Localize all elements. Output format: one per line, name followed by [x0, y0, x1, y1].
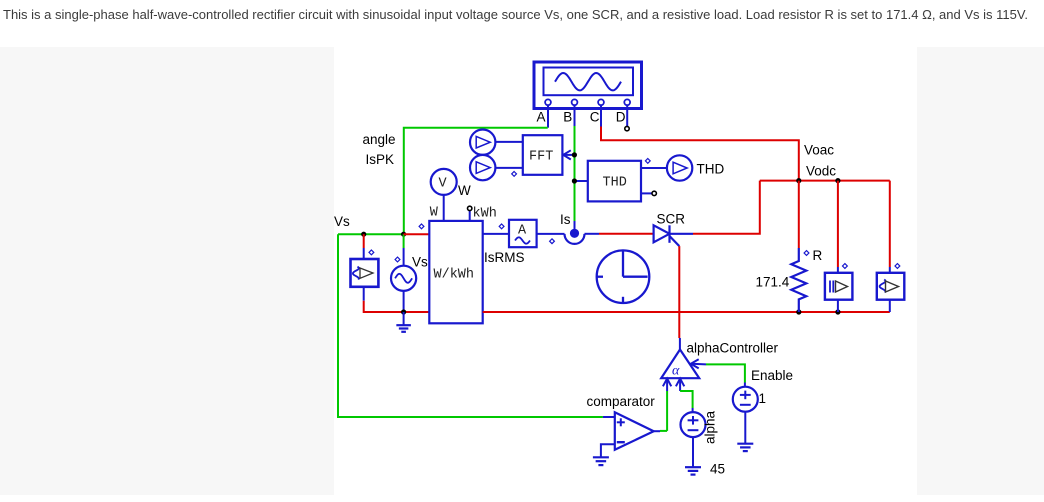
- wire alpha stub (blue): [692, 408, 694, 412]
- svg-text:W: W: [430, 206, 439, 221]
- junction R bottom: [796, 309, 801, 314]
- probe2 polarity mark: [895, 264, 900, 269]
- wire Is to SCR (blue): [585, 233, 600, 235]
- wire enable stub (blue): [744, 383, 746, 387]
- svg-text:THD: THD: [603, 176, 627, 191]
- wire probe2 (blue): [889, 267, 891, 273]
- scope pin B terminal: [572, 99, 578, 105]
- svg-text:Enable: Enable: [751, 368, 793, 383]
- voltage probe angle (circle): [470, 130, 495, 155]
- arrow into FFT input: [563, 150, 574, 159]
- wire scope C stub: [600, 105, 602, 126]
- svg-text:IsRMS: IsRMS: [484, 250, 525, 265]
- wire bottom bus left (red): [428, 311, 430, 313]
- wire scope D stub: [626, 105, 628, 126]
- oscilloscope scope body: [534, 62, 642, 109]
- svg-text:alpha: alpha: [703, 410, 718, 444]
- wire to Vs probe (red): [363, 234, 365, 248]
- thyristor SCR: [654, 225, 693, 246]
- voltage probe V (W): [431, 169, 457, 221]
- wire SCR gate (red): [678, 246, 680, 338]
- junction probe1 top: [835, 178, 840, 183]
- wire alpha to ground: [692, 437, 694, 467]
- wire Vs node to W/kWh (red): [404, 233, 430, 235]
- wire Is stub (blue): [574, 221, 576, 230]
- wire gate stub (blue): [679, 338, 681, 350]
- voltage source Vs: [391, 266, 416, 291]
- wire Vs probe to ground bus (red): [364, 301, 430, 312]
- Vs probe polarity mark: [369, 250, 374, 255]
- wire comparator plus input (blue): [603, 416, 615, 418]
- junction Vs source: [401, 232, 406, 237]
- wire to Vs source (green): [403, 234, 405, 248]
- svg-text:B: B: [563, 110, 572, 125]
- svg-text:C: C: [590, 110, 600, 125]
- voltmeter Vs probe block: [351, 259, 379, 287]
- wire probe1 to FFT: [495, 141, 522, 143]
- resistor R: [791, 248, 806, 312]
- svg-text:angle: angle: [363, 132, 396, 147]
- svg-text:Vs: Vs: [334, 214, 350, 229]
- junction Vs probe: [361, 232, 366, 237]
- svg-text:SCR: SCR: [657, 212, 686, 227]
- wire A to Vs node (green): [404, 128, 548, 235]
- scope pin C terminal: [598, 99, 604, 105]
- voltmeter Vodc probe block: [825, 273, 853, 300]
- wire comparator minus to ground (blue): [601, 444, 615, 457]
- wire probe2 to FFT: [495, 167, 522, 169]
- A meter input mark: [499, 224, 504, 229]
- junction R top: [796, 178, 801, 183]
- wire THD bottom output: [641, 192, 652, 194]
- wire Vs probe to ground bus (blue): [363, 287, 365, 301]
- wire B to Is node (green): [574, 126, 576, 221]
- junction probe1 bottom: [835, 309, 840, 314]
- scope pin A terminal: [545, 99, 551, 105]
- wire enable (green): [706, 364, 745, 382]
- voltage probe THD (circle): [667, 155, 692, 180]
- FFT block: [523, 135, 563, 175]
- svg-text:W: W: [458, 183, 471, 198]
- svg-text:Vodc: Vodc: [806, 164, 836, 179]
- alphaController enable arrow: [691, 359, 706, 368]
- scope pin D terminal: [624, 99, 630, 105]
- wire A meter to Is (blue): [537, 233, 565, 235]
- wire probe2 (red): [889, 181, 891, 267]
- svg-text:Is: Is: [560, 212, 571, 227]
- svg-text:FFT: FFT: [529, 150, 553, 165]
- wire Vs source to ground (blue): [403, 291, 405, 312]
- probe1 polarity mark: [843, 264, 848, 269]
- wire Is to SCR (red): [599, 233, 654, 235]
- dc source Enable: [733, 387, 758, 412]
- ground comparator: [593, 457, 609, 465]
- wire load bus (red): [760, 180, 890, 182]
- wire Vs node (green): [338, 233, 404, 235]
- ammeter A block: [509, 220, 537, 247]
- svg-text:A: A: [537, 110, 546, 125]
- svg-text:W/kWh: W/kWh: [434, 268, 475, 283]
- W/kWh input polarity mark: [419, 224, 424, 229]
- svg-text:45: 45: [710, 462, 725, 477]
- wire scope A stub: [547, 105, 549, 128]
- svg-text:D: D: [616, 110, 626, 125]
- junction THD input: [572, 178, 577, 183]
- svg-text:V: V: [439, 177, 448, 192]
- svg-text:IsPK: IsPK: [366, 152, 395, 167]
- A meter output mark: [550, 239, 555, 244]
- svg-text:α: α: [672, 364, 680, 379]
- wire probe2 bottom (blue): [889, 300, 891, 312]
- svg-text:comparator: comparator: [587, 394, 656, 409]
- svg-text:Vs: Vs: [412, 255, 428, 270]
- scope D open terminal: [625, 126, 629, 130]
- Is current sensor loop: [565, 234, 585, 244]
- junction Vs ground: [401, 309, 406, 314]
- node Is dot: [570, 229, 579, 238]
- alphaController bottom arrows: [663, 379, 684, 391]
- wire scope B stub: [574, 105, 576, 126]
- kWh terminal stub: [469, 211, 471, 221]
- alpha controller block: [661, 350, 699, 379]
- wire THD input: [574, 180, 587, 182]
- voltmeter Voac probe block: [877, 273, 905, 300]
- Vs source polarity mark: [395, 257, 400, 262]
- wire comparator output (blue): [654, 430, 660, 432]
- ground alpha: [685, 467, 701, 474]
- voltage probe IsPK (circle): [470, 155, 495, 180]
- comparator op-amp: [615, 412, 654, 450]
- svg-text:A: A: [518, 224, 527, 239]
- ground Vs: [396, 312, 411, 332]
- THD bottom open terminal: [652, 191, 656, 195]
- wire probe1 (blue): [837, 267, 839, 273]
- wire probe1 bottom (blue): [837, 300, 839, 312]
- wire SCR to bus (red): [693, 181, 760, 234]
- svg-text:R: R: [813, 248, 823, 263]
- svg-text:Voac: Voac: [804, 143, 834, 158]
- wire C to right bus (red): [601, 127, 799, 181]
- ground Enable: [737, 444, 753, 451]
- dc source alpha: [681, 412, 706, 437]
- FFT polarity mark: [512, 172, 517, 177]
- wire W/kWh to A meter (blue): [483, 233, 509, 235]
- clock symbol: [597, 250, 650, 303]
- wire to Vs source (blue): [403, 248, 405, 266]
- svg-text:1: 1: [759, 391, 767, 406]
- power meter W/kWh block: [429, 206, 482, 324]
- kWh open terminal: [468, 206, 472, 210]
- wire comparator to controller (green): [666, 391, 668, 431]
- wire Vs to comparator (green): [338, 234, 603, 417]
- R polarity mark: [804, 251, 809, 256]
- wire R top (red): [798, 181, 800, 248]
- wire bottom bus (red): [483, 311, 890, 313]
- wire probe1 (red): [837, 181, 839, 267]
- wire to Vs probe (blue): [363, 248, 365, 259]
- THD top output mark: [645, 159, 650, 164]
- svg-text:kWh: kWh: [473, 207, 497, 222]
- wire Enable to ground: [744, 412, 746, 444]
- wire alpha to controller (green): [680, 391, 693, 408]
- svg-text:alphaController: alphaController: [687, 341, 779, 356]
- svg-text:171.4: 171.4: [756, 275, 790, 290]
- svg-text:THD: THD: [697, 162, 725, 177]
- THD block: [588, 161, 641, 202]
- wire THD to probe: [641, 167, 667, 169]
- wire comparator output (green): [660, 430, 667, 432]
- junction FFT input: [572, 152, 577, 157]
